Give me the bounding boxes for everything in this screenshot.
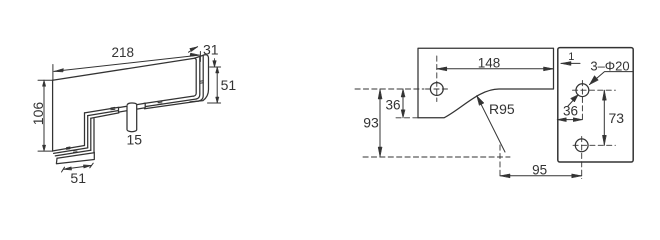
svg-text:51: 51 <box>70 170 86 186</box>
hole H2 (top right) <box>576 84 589 97</box>
step vertical V1 <box>84 113 86 146</box>
dim 51R arrows <box>216 67 219 103</box>
step vertical V2 <box>87 116 89 148</box>
dim 51R line <box>216 67 218 103</box>
foot slope line S3 <box>55 150 91 156</box>
dim 95 arrows <box>500 174 582 178</box>
bar bottom line 2 <box>88 99 197 116</box>
svg-text:R95: R95 <box>489 101 515 117</box>
dim 106 line <box>43 80 45 151</box>
seam mark d <box>74 150 78 152</box>
foot slope line S1 <box>53 146 85 151</box>
dim 218 arrow left <box>54 69 64 72</box>
pivot horizontal dashed line <box>363 156 510 158</box>
bottom edge dash extension left <box>396 117 418 119</box>
pivot collar plate <box>119 103 146 112</box>
dim 218 extension left <box>52 65 54 81</box>
svg-text:73: 73 <box>609 110 625 126</box>
leader R95 arrow <box>477 96 484 106</box>
pivot cylinder <box>127 103 137 132</box>
end cap back right edge <box>190 55 209 102</box>
end cap inner vertical 2 <box>198 55 203 101</box>
svg-text:93: 93 <box>363 115 379 131</box>
end cap inner vertical 1 <box>196 57 200 100</box>
body front right edge <box>193 58 196 96</box>
body left edge <box>52 80 54 151</box>
leader arrow <box>590 76 599 85</box>
dim 106 arrows <box>42 80 45 151</box>
dim 31 down arrow <box>213 59 216 67</box>
dim 51B right tick <box>90 163 93 168</box>
dim 106 top tick <box>38 79 52 81</box>
foot front face <box>56 152 94 163</box>
dim 31 arrow <box>190 47 198 52</box>
dim 218 extension right <box>199 52 201 62</box>
dim 218 arrow right <box>190 53 200 56</box>
hole H3 (bottom right) <box>575 139 588 152</box>
leader 3-phi20 <box>590 72 633 85</box>
svg-text:15: 15 <box>127 132 143 148</box>
arm outline <box>418 48 554 118</box>
body top edge <box>53 58 195 80</box>
dim 51R top tick <box>210 66 221 68</box>
hole H1 <box>430 83 443 96</box>
seam mark e (cap) <box>200 81 203 84</box>
svg-text:51: 51 <box>221 77 237 93</box>
dim 1 arrow <box>561 62 571 66</box>
seam mark a <box>111 107 115 109</box>
dim 51B arrows <box>63 165 91 170</box>
seam mark c <box>67 147 71 149</box>
right plate rect <box>558 48 633 162</box>
svg-text:3–Φ20: 3–Φ20 <box>590 58 629 73</box>
hole H3 crosshair <box>581 137 583 179</box>
step vertical V3 <box>90 118 92 150</box>
svg-text:36: 36 <box>563 104 578 119</box>
seam mark b <box>158 102 162 104</box>
pivot vertical dashed line <box>499 145 501 179</box>
bar bottom line 3 <box>91 101 199 118</box>
svg-text:106: 106 <box>30 102 46 126</box>
dim 31 leader <box>189 47 198 53</box>
dim 36L arrows <box>401 89 405 118</box>
dim 95 line <box>500 175 582 177</box>
svg-text:218: 218 <box>112 45 135 60</box>
step vertical V4 <box>93 119 95 153</box>
dim 1 line <box>561 62 580 64</box>
dim 93 arrows <box>378 89 382 157</box>
dim 36R leader to hole <box>568 95 578 106</box>
dim 36R line <box>557 119 582 121</box>
svg-text:148: 148 <box>478 55 501 70</box>
svg-text:31: 31 <box>203 41 219 57</box>
bar bottom line 1 (front bottom edge) <box>85 96 194 113</box>
dim 106 bottom tick <box>38 150 53 152</box>
leader R95 <box>477 96 505 152</box>
dim 36R arrows <box>557 118 582 122</box>
dim 51R bottom tick <box>208 102 221 104</box>
dim 218 line <box>54 55 199 71</box>
dim 73 line <box>603 90 605 145</box>
foot slope line S2 <box>54 148 88 154</box>
dim 36L line <box>402 89 404 118</box>
svg-text:36: 36 <box>385 98 400 113</box>
dim 148 line <box>437 68 554 70</box>
dim 73 arrows <box>602 90 606 145</box>
hole H2 crosshair <box>581 81 583 123</box>
dim 148 arrows <box>437 67 554 71</box>
svg-text:1: 1 <box>568 51 574 63</box>
hole H1 crosshair <box>436 56 438 102</box>
dim 51B line <box>63 166 91 170</box>
end cap top oblique edge <box>195 55 205 58</box>
svg-text:95: 95 <box>532 163 547 178</box>
foot slope line S4 <box>57 153 94 159</box>
centerline through H1 extended left <box>355 88 424 90</box>
dim 51B left tick <box>62 167 65 172</box>
dim 93 line <box>379 89 381 157</box>
